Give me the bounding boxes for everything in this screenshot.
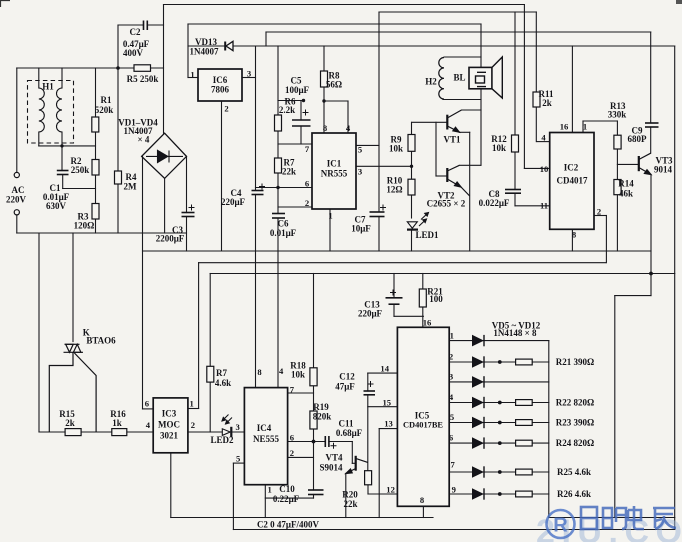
svg-text:0.022μF: 0.022μF [479, 198, 510, 208]
svg-text:250k: 250k [71, 165, 90, 175]
svg-text:2k: 2k [65, 418, 75, 428]
svg-text:LED1: LED1 [415, 230, 439, 240]
svg-text:4: 4 [449, 392, 454, 402]
svg-text:4: 4 [279, 366, 284, 376]
svg-text:8: 8 [257, 367, 262, 377]
svg-text:16: 16 [560, 122, 569, 132]
svg-text:46k: 46k [619, 189, 633, 199]
svg-text:6: 6 [145, 399, 150, 409]
svg-text:IC3: IC3 [162, 409, 177, 419]
svg-text:15: 15 [383, 398, 392, 408]
svg-text:220μF: 220μF [221, 197, 246, 207]
svg-text:0.68μF: 0.68μF [336, 428, 363, 438]
svg-text:10: 10 [540, 164, 549, 174]
svg-text:1: 1 [583, 122, 587, 132]
svg-text:1: 1 [189, 399, 193, 409]
svg-text:BL: BL [453, 73, 465, 83]
svg-text:R14: R14 [618, 179, 634, 189]
svg-text:R5 250k: R5 250k [127, 74, 159, 84]
svg-text:CD4017: CD4017 [557, 176, 588, 186]
svg-text:2M: 2M [124, 182, 138, 192]
svg-text:3: 3 [247, 69, 251, 79]
svg-text:0.01μF: 0.01μF [270, 228, 297, 238]
svg-text:3021: 3021 [160, 431, 179, 441]
svg-text:AC: AC [12, 185, 25, 195]
svg-text:C10: C10 [279, 484, 295, 494]
svg-text:13: 13 [384, 419, 393, 429]
svg-text:2: 2 [449, 352, 453, 362]
svg-text:47μF: 47μF [335, 382, 355, 392]
svg-text:220V: 220V [6, 195, 27, 205]
svg-text:1N4148 × 8: 1N4148 × 8 [493, 328, 537, 338]
svg-text:6: 6 [449, 433, 454, 443]
svg-text:CD4017BE: CD4017BE [403, 421, 443, 430]
svg-text:2.2k: 2.2k [279, 105, 295, 115]
svg-text:16: 16 [423, 318, 432, 328]
svg-text:R20: R20 [342, 490, 358, 500]
svg-text:2: 2 [290, 448, 294, 458]
svg-text:630V: 630V [46, 201, 67, 211]
svg-text:C2: C2 [130, 27, 141, 37]
svg-text:8: 8 [323, 123, 328, 133]
svg-text:1: 1 [450, 331, 454, 341]
svg-text:22k: 22k [282, 167, 296, 177]
svg-text:100μF: 100μF [285, 85, 310, 95]
svg-text:5: 5 [450, 412, 454, 422]
svg-text:100: 100 [429, 294, 443, 304]
svg-text:9014: 9014 [654, 165, 673, 175]
svg-text:R26 4.6k: R26 4.6k [557, 489, 591, 499]
svg-text:3: 3 [449, 372, 453, 382]
svg-text:2: 2 [597, 207, 601, 217]
svg-text:R: R [553, 515, 568, 537]
svg-text:7: 7 [451, 460, 456, 470]
svg-text:IC5: IC5 [415, 411, 430, 421]
svg-text:R21 390Ω: R21 390Ω [556, 357, 594, 367]
svg-text:R24 820Ω: R24 820Ω [556, 438, 594, 448]
svg-text:2: 2 [191, 420, 195, 430]
svg-text:2: 2 [224, 104, 228, 114]
svg-text:56Ω: 56Ω [326, 80, 342, 90]
svg-text:520k: 520k [95, 105, 114, 115]
svg-text:12: 12 [386, 485, 395, 495]
svg-text:8: 8 [572, 230, 577, 240]
svg-text:0.22μF: 0.22μF [273, 494, 300, 504]
svg-text:5: 5 [236, 454, 240, 464]
svg-text:2k: 2k [542, 98, 552, 108]
svg-text:2: 2 [305, 198, 309, 208]
svg-text:VT4: VT4 [325, 453, 343, 463]
svg-text:NR555: NR555 [321, 169, 348, 179]
svg-text:10k: 10k [389, 144, 403, 154]
svg-text:C11: C11 [338, 419, 354, 429]
svg-text:4.6k: 4.6k [215, 378, 231, 388]
svg-text:LED2: LED2 [210, 435, 234, 445]
svg-text:1k: 1k [112, 418, 122, 428]
svg-text:3: 3 [236, 422, 240, 432]
svg-text:C12: C12 [339, 372, 355, 382]
svg-text:4: 4 [541, 133, 546, 143]
svg-text:IC6: IC6 [213, 75, 228, 85]
svg-text:6: 6 [305, 179, 310, 189]
svg-text:R25 4.6k: R25 4.6k [557, 467, 591, 477]
svg-text:22k: 22k [343, 499, 357, 509]
svg-text:C5: C5 [291, 76, 302, 86]
svg-text:14: 14 [380, 364, 389, 374]
svg-text:10k: 10k [492, 143, 506, 153]
svg-text:1: 1 [190, 70, 194, 80]
svg-text:S9014: S9014 [319, 463, 343, 473]
svg-text:330k: 330k [608, 110, 627, 120]
svg-text:2200μF: 2200μF [156, 234, 185, 244]
svg-text:R23 390Ω: R23 390Ω [556, 418, 594, 428]
svg-text:R19: R19 [313, 402, 329, 412]
svg-text:4: 4 [146, 420, 151, 430]
svg-text:6: 6 [290, 433, 295, 443]
svg-text:VT1: VT1 [443, 135, 461, 145]
svg-text:220μF: 220μF [358, 309, 383, 319]
svg-text:× 4: × 4 [138, 135, 150, 145]
svg-text:10μF: 10μF [351, 224, 371, 234]
svg-text:VT2: VT2 [437, 191, 455, 201]
svg-text:1N4007: 1N4007 [190, 47, 219, 57]
svg-text:IC4: IC4 [257, 423, 272, 433]
svg-text:5: 5 [358, 145, 362, 155]
svg-text:12Ω: 12Ω [386, 185, 402, 195]
svg-text:400V: 400V [123, 48, 144, 58]
svg-text:10k: 10k [291, 370, 305, 380]
svg-text:7806: 7806 [211, 85, 230, 95]
svg-text:120Ω: 120Ω [74, 221, 95, 231]
svg-text:1: 1 [328, 211, 332, 221]
svg-text:7: 7 [305, 144, 310, 154]
svg-text:H2: H2 [425, 77, 437, 87]
svg-text:R1: R1 [101, 95, 112, 105]
svg-text:8: 8 [420, 495, 425, 505]
svg-text:9: 9 [452, 485, 456, 495]
svg-text:11: 11 [540, 201, 548, 211]
svg-text:4: 4 [346, 123, 351, 133]
svg-text:VD13: VD13 [195, 37, 217, 47]
svg-text:IC2: IC2 [564, 163, 579, 173]
svg-text:IC1: IC1 [327, 159, 342, 169]
svg-text:1: 1 [267, 485, 271, 495]
svg-text:R4: R4 [126, 172, 137, 182]
svg-text:MOC: MOC [158, 420, 180, 430]
svg-text:R7: R7 [216, 368, 227, 378]
svg-text:820k: 820k [313, 412, 332, 422]
svg-text:C6: C6 [278, 219, 289, 229]
svg-text:R22 820Ω: R22 820Ω [556, 398, 594, 408]
svg-text:3: 3 [358, 167, 362, 177]
svg-text:C2 0 47μF/400V: C2 0 47μF/400V [257, 520, 320, 530]
svg-text:H1: H1 [42, 82, 54, 92]
svg-text:680P: 680P [628, 134, 648, 144]
svg-text:BTAO6: BTAO6 [86, 336, 116, 346]
svg-text:7: 7 [290, 385, 295, 395]
svg-text:NE555: NE555 [253, 434, 280, 444]
